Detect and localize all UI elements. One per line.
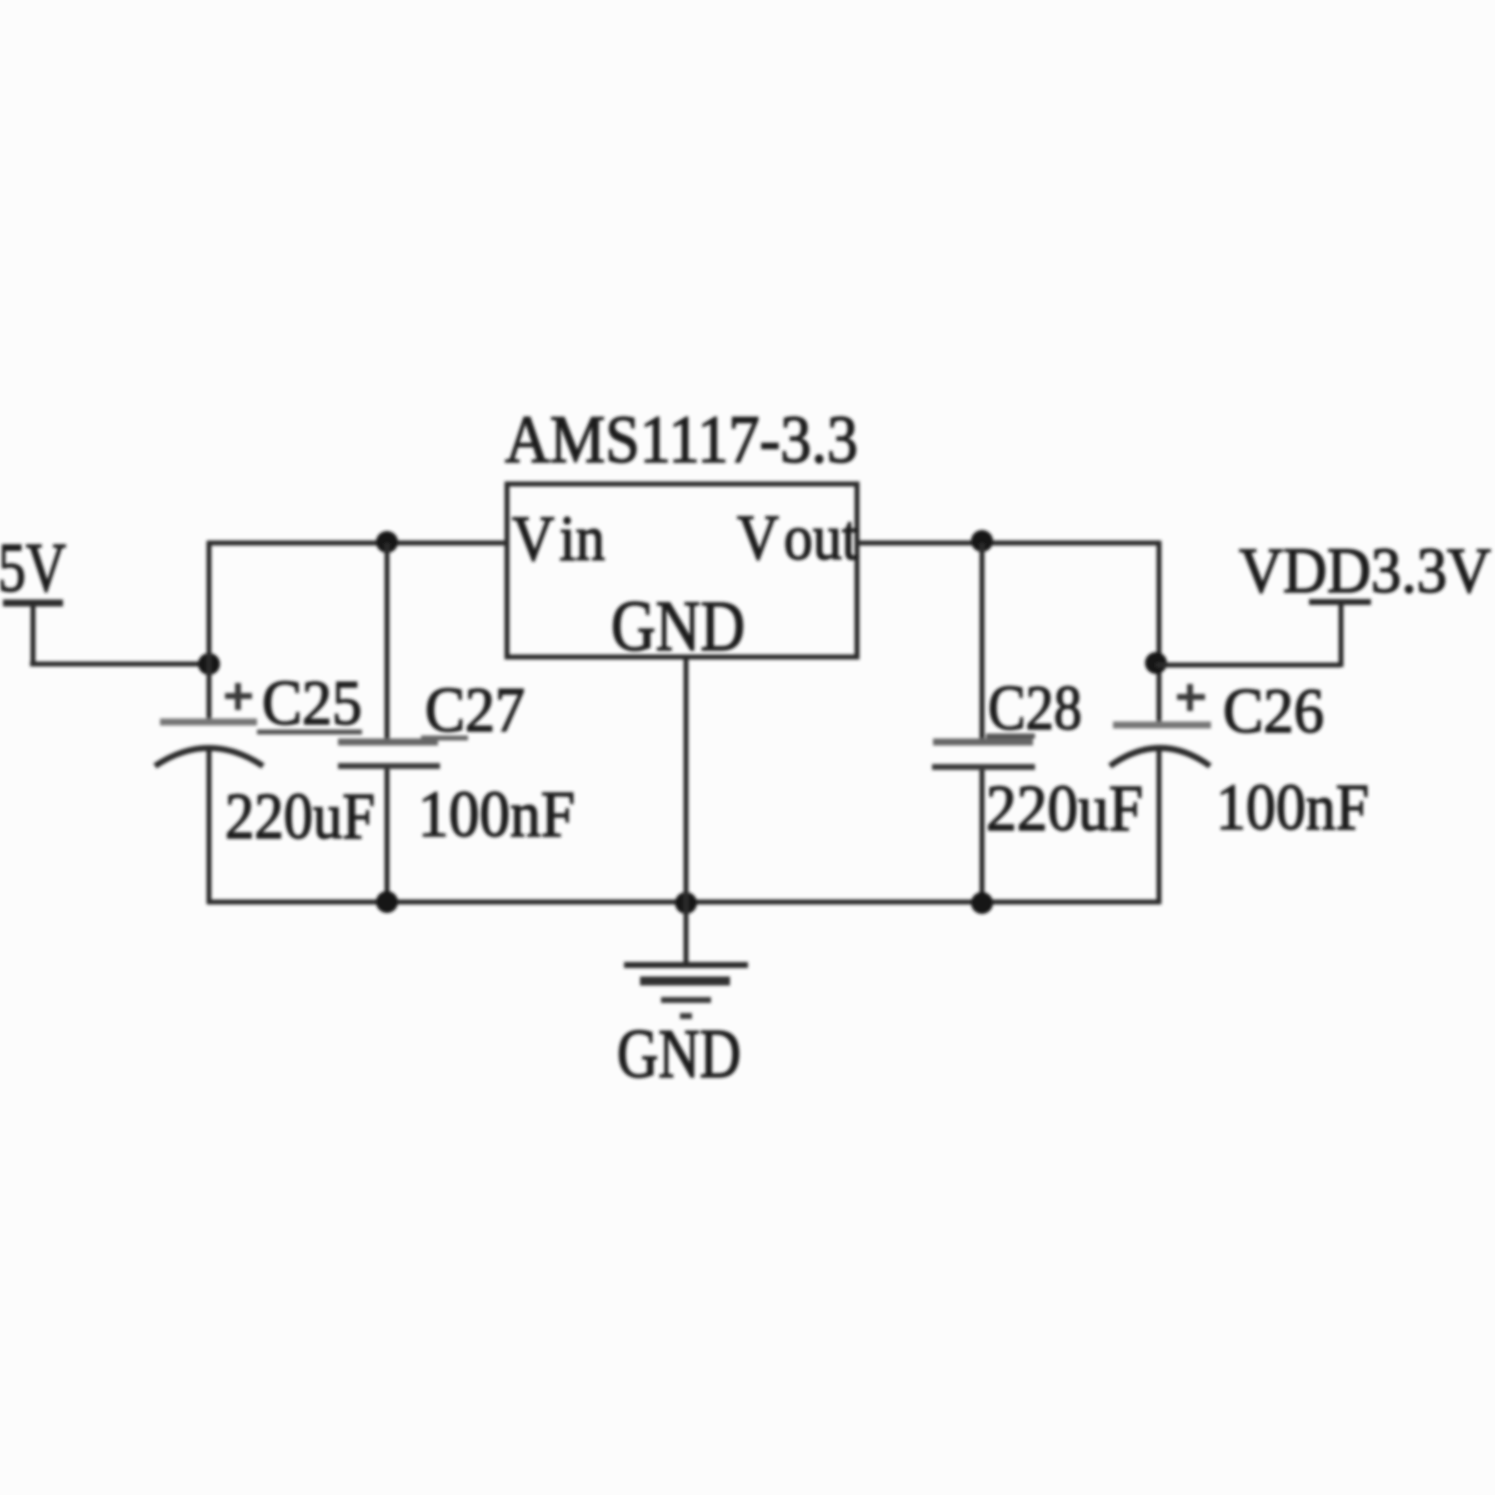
svg-text:V in: V in [512,503,605,575]
wire C28 vertical lower [980,767,985,904]
svg-text:C26: C26 [1223,675,1324,746]
wire VDD horizontal [1156,663,1341,668]
svg-text:C25: C25 [262,667,362,738]
power symbol 5V bar [3,600,63,607]
pin label Vin [512,503,605,575]
svg-text:220uF: 220uF [225,780,375,853]
wire left vertical C25 branch lower [207,749,212,904]
pin label Vout [737,502,858,574]
wire bottom rail [207,900,1161,905]
capacitor C26 top plate [1113,722,1211,729]
value 220uF right [986,772,1143,845]
svg-text:GND: GND [617,1016,741,1093]
ground symbol bar 2 [640,977,730,986]
wire C27 vertical lower [385,766,390,904]
wire top rail right [857,541,1161,546]
wire C26 vertical lower [1157,751,1162,904]
node E junction dot (C27 bottom) [376,891,398,913]
svg-text:5V: 5V [0,530,66,607]
wire top rail left [207,541,509,546]
value 220uF left [225,780,375,853]
value 100nF left [418,778,575,851]
label AMS1117-3.3 [505,401,858,477]
wire C27 vertical upper [385,543,390,742]
capacitor C25 curved plate [155,748,263,766]
designator C27 [425,674,525,745]
wire VDD vertical [1339,604,1344,667]
ground symbol bar 3 [661,997,711,1003]
ground symbol bar 1 [624,962,748,968]
node G junction dot (C28 bottom) [971,892,993,914]
capacitor C28 top plate [933,739,1033,746]
svg-text:V out: V out [737,502,858,574]
pin label GND [611,586,745,666]
capacitor C26 curved plate [1110,748,1210,766]
svg-text:C27: C27 [425,674,525,745]
wire 5V down [31,603,36,664]
capacitor C26 plus sign [1177,684,1205,711]
node B junction dot (C27 top) [376,531,398,553]
power symbol VDD bar [1309,599,1371,605]
node D junction dot (VDD tap) [1145,652,1167,674]
node F junction dot (GND rail) [675,892,697,914]
capacitor C27 top plate [338,739,438,746]
svg-text:VDD3.3V: VDD3.3V [1239,535,1491,607]
designator C25 [262,667,362,738]
wire GND pin down [684,657,689,962]
designator C26 [1223,675,1324,746]
designator C27 underline [421,736,468,741]
node C junction dot (C28 top) [971,530,993,552]
svg-text:100nF: 100nF [418,778,575,851]
designator C28 [988,672,1082,743]
regulator U1 AMS1117-3.3 box [507,484,857,657]
capacitor C25 plus sign [225,683,252,710]
net label GND [617,1016,741,1093]
capacitor C27 bottom plate [338,763,440,769]
capacitor C28 bottom plate [932,764,1035,770]
svg-text:AMS1117-3.3: AMS1117-3.3 [505,401,858,477]
power net label 5V [0,530,66,607]
node A junction dot [198,653,220,675]
svg-text:220uF: 220uF [986,772,1143,845]
svg-text:GND: GND [611,586,745,666]
capacitor C25 top plate [160,719,257,726]
value 100nF right [1216,771,1369,844]
power net label VDD3.3V [1239,535,1491,607]
wire 5V to node A [30,662,211,667]
wire C26 vertical upper [1157,541,1162,725]
svg-text:100nF: 100nF [1216,771,1369,844]
designator C28 underline [986,734,1035,739]
ground symbol bar 4 [680,1013,692,1019]
svg-text:C28: C28 [988,672,1082,743]
wire C28 vertical upper [980,543,985,741]
designator C25 underline [257,730,362,735]
wire left vertical C25 branch upper [207,541,212,722]
